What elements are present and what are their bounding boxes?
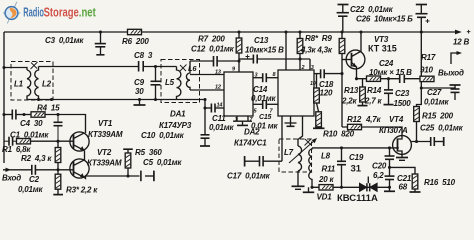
wire L6 to DA1 pin12: [190, 89, 224, 91]
wire emitter VT3 row: [357, 78, 422, 80]
resistor R10: [316, 112, 322, 127]
svg-text:C25 0,01мк: C25 0,01мк: [420, 124, 464, 133]
svg-text:C11: C11: [212, 114, 226, 123]
capacitor C20: [385, 148, 395, 176]
capacitor C3: [95, 32, 106, 55]
wire L2 top to C8: [39, 66, 139, 68]
node C12-R7: [237, 59, 240, 62]
node C19 bottom: [340, 186, 343, 189]
DA2 pin 11 stub to C17: [281, 116, 283, 161]
svg-text:L7: L7: [284, 148, 294, 157]
wire VT3 base bias vertical: [341, 60, 343, 128]
node C23: [387, 77, 390, 80]
resistor R17: [420, 76, 434, 81]
svg-text:L6: L6: [188, 64, 197, 73]
capacitor C23: [384, 79, 394, 105]
svg-text:31: 31: [351, 164, 362, 175]
resistor R14: [367, 76, 381, 81]
capacitor C9: [151, 67, 161, 100]
capacitor C17: [245, 156, 282, 167]
svg-text:R17: R17: [421, 53, 436, 62]
bottom varicap wire: [312, 186, 390, 188]
svg-text:C13: C13: [254, 36, 269, 45]
logo globe icon: [3, 2, 21, 24]
svg-text:.net: .net: [79, 6, 97, 20]
node C19 top: [340, 146, 343, 149]
svg-text:R14: R14: [367, 86, 382, 95]
svg-text:10мк × 15 В: 10мк × 15 В: [369, 68, 412, 77]
wire VT2 emitter: [85, 176, 140, 178]
node L2 bottom: [37, 98, 40, 101]
R16 ground: [410, 189, 421, 192]
resistor R8: [297, 39, 303, 54]
node box right: [50, 98, 53, 101]
capacitor C26: [416, 5, 430, 33]
inductor L5: [177, 67, 181, 100]
svg-text:Вход: Вход: [2, 174, 21, 183]
VT4 source ground: [396, 158, 408, 161]
svg-text:К174УС1: К174УС1: [234, 139, 267, 148]
svg-text:R4 15: R4 15: [37, 104, 60, 113]
node C6 top: [56, 113, 59, 116]
inductor L7: [298, 146, 302, 171]
core mark L7: [305, 139, 312, 146]
svg-text:R12: R12: [347, 115, 362, 124]
node C25 wire: [415, 140, 418, 143]
inductor L6: [186, 61, 190, 90]
node C18 wire: [340, 72, 343, 75]
node rail R8: [298, 30, 301, 33]
svg-text:Storage: Storage: [44, 6, 79, 20]
svg-text:4,7к: 4,7к: [365, 115, 382, 124]
resistor R1: [17, 139, 31, 144]
capacitor C13: [239, 55, 310, 64]
top supply rail wire: [4, 31, 456, 33]
wire R17 to R15: [417, 82, 422, 107]
resistor R7: [236, 38, 242, 53]
capacitor C25: [412, 137, 444, 146]
transistor VT3: [342, 32, 365, 79]
svg-text:DA2: DA2: [244, 128, 260, 137]
DA1 bottom pins: [233, 116, 252, 125]
tuning arrow L7L8: [289, 138, 317, 163]
node bus C10: [203, 98, 206, 101]
R9 stems: [341, 32, 343, 60]
capacitor C14 wire DA1-DA2: [253, 73, 278, 82]
svg-text:6,2: 6,2: [373, 171, 384, 180]
svg-text:910: 910: [420, 66, 433, 75]
capacitor C2: [32, 165, 74, 175]
inductor L8: [309, 148, 312, 187]
wire L6 to DA1 pin13: [190, 74, 224, 76]
capacitor C18: [314, 69, 342, 78]
svg-text:C8 3: C8 3: [134, 51, 153, 60]
output terminal: [451, 51, 462, 64]
svg-text:R6 200: R6 200: [122, 37, 149, 46]
svg-text:C19: C19: [349, 153, 364, 162]
op-amp U DA1 box: [224, 72, 253, 116]
svg-text:R11: R11: [322, 165, 336, 174]
svg-text:C4 30: C4 30: [20, 119, 43, 128]
svg-text:К174УР3: К174УР3: [159, 121, 192, 130]
svg-text:C23: C23: [395, 89, 410, 98]
svg-text:DA1: DA1: [170, 110, 186, 119]
resistor R11: [319, 185, 333, 190]
node L8 bottom: [310, 186, 313, 189]
svg-text:VT2: VT2: [97, 148, 112, 157]
transformer L1 L2 screen (dashed box): [11, 62, 53, 101]
svg-text:КТ 315: КТ 315: [368, 44, 397, 54]
resistor R13: [360, 87, 366, 102]
capacitor C1: [4, 137, 17, 146]
svg-text:C10 0,01мк: C10 0,01мк: [141, 131, 185, 140]
wire R2 stems: [57, 141, 59, 170]
capacitor C21: [384, 176, 395, 191]
ground symbol bus: [134, 100, 146, 106]
node rail C26: [420, 30, 423, 33]
node C20 top: [388, 146, 391, 149]
svg-text:VD1: VD1: [317, 193, 333, 202]
capacitor C27: [421, 85, 460, 100]
node rail VT3: [359, 30, 362, 33]
DA2 pin stub to L7: [298, 116, 303, 146]
svg-text:68: 68: [399, 183, 408, 192]
svg-text:R15 200: R15 200: [422, 112, 454, 121]
node border-C4: [2, 113, 5, 116]
transformer L5 L6 screen (dashed box): [161, 60, 200, 103]
svg-text:C2: C2: [29, 175, 40, 184]
resistor R3: [55, 174, 61, 189]
svg-text:L2: L2: [42, 80, 52, 89]
node R8 bottom: [298, 57, 301, 60]
resistor R2: [55, 148, 61, 163]
node base VT1: [56, 140, 59, 143]
capacitor C11: [205, 104, 224, 113]
wire C20 to R16: [390, 167, 416, 174]
wire R1 to VT1 base: [31, 140, 74, 142]
svg-text:12: 12: [215, 85, 221, 91]
svg-text:Выход: Выход: [438, 69, 464, 78]
transistor VT1: [70, 132, 89, 151]
svg-text:2,2к: 2,2к: [341, 97, 358, 106]
frame left border wire: [3, 32, 5, 163]
transistor VT2: [70, 159, 89, 178]
node R7 rail: [237, 30, 240, 33]
R7 stems: [238, 32, 240, 72]
capacitor C4: [4, 110, 31, 120]
transistor VT4: [393, 136, 412, 158]
svg-text:C22 0,01мк: C22 0,01мк: [350, 5, 394, 14]
inductor L2: [35, 67, 39, 100]
svg-text:0,01мк: 0,01мк: [209, 123, 234, 132]
resistor R4: [31, 112, 45, 117]
node base VT2: [56, 168, 59, 171]
wire R12 to VT4 drain: [342, 127, 402, 136]
svg-text:VT1: VT1: [98, 119, 113, 128]
svg-text:4,3к 4,3к: 4,3к 4,3к: [300, 46, 333, 55]
VT4 gate dot: [396, 147, 399, 150]
svg-text:R2 4,3 к: R2 4,3 к: [21, 154, 52, 163]
svg-text:L1: L1: [14, 80, 24, 89]
svg-text:C14: C14: [253, 85, 268, 94]
ground L8 bottom: [303, 187, 314, 192]
L7 ground: [292, 171, 305, 189]
svg-text:C9: C9: [134, 78, 145, 87]
transformer L7 L8 screen (dashed box): [279, 139, 312, 172]
R5 stems: [123, 149, 133, 176]
svg-text:20 к: 20 к: [318, 175, 335, 184]
node left-border / L1: [2, 66, 5, 69]
DA2 mid pin ground: [285, 116, 297, 126]
R15 stem to C25 wire: [416, 122, 418, 142]
R13 stems: [358, 79, 368, 106]
svg-text:120: 120: [320, 89, 333, 98]
svg-text:R13: R13: [344, 86, 359, 95]
svg-text:C5 0,01мк: C5 0,01мк: [143, 158, 182, 167]
svg-text:C24: C24: [379, 59, 394, 68]
svg-text:10: 10: [310, 81, 316, 87]
inductor L1: [27, 70, 31, 100]
svg-text:1500: 1500: [394, 99, 412, 108]
node C3-rail: [99, 30, 102, 33]
svg-text:R7 200: R7 200: [198, 35, 225, 44]
capacitor C19: [337, 148, 346, 187]
node C11: [203, 106, 206, 109]
svg-text:C17 0,01мк: C17 0,01мк: [227, 172, 271, 181]
R8 stems: [299, 32, 301, 59]
DA2 top pin stubs: [300, 59, 310, 70]
svg-text:КТ339АМ: КТ339АМ: [88, 130, 123, 139]
resistor R16: [412, 174, 418, 189]
svg-text:10мк×15 В: 10мк×15 В: [245, 46, 284, 55]
node emitter VT3: [355, 77, 358, 80]
input arrow: [3, 168, 32, 172]
resistor R6: [128, 29, 142, 34]
resistor R9: [339, 39, 345, 54]
varicap VD1: [360, 177, 378, 192]
node R5 bottom: [126, 174, 129, 177]
wire L8 to VT4 gate: [312, 147, 393, 149]
node C9 top: [154, 65, 157, 68]
svg-text:C15: C15: [259, 114, 272, 121]
svg-text:13: 13: [215, 70, 221, 76]
svg-text:3: 3: [255, 73, 258, 79]
capacitor C24: [400, 74, 405, 83]
svg-text:2,7 к: 2,7 к: [364, 97, 383, 106]
node C9 bottom: [154, 98, 157, 101]
svg-text:L8: L8: [321, 152, 331, 161]
svg-text:C27: C27: [427, 88, 442, 97]
svg-text:C20: C20: [372, 162, 387, 171]
svg-text:C12 0,01мк: C12 0,01мк: [191, 45, 235, 54]
resistor R12: [348, 124, 362, 129]
capacitor C12: [190, 56, 239, 67]
svg-text:0,01мк: 0,01мк: [424, 98, 449, 107]
wire border to L1: [4, 68, 27, 71]
svg-text:30: 30: [135, 87, 144, 96]
plus mark 12V: [467, 30, 471, 34]
ground bus wire: [27, 99, 205, 101]
svg-text:C3 0,01мк: C3 0,01мк: [45, 36, 84, 45]
wire rail down R17: [420, 32, 422, 76]
capacitor C6 vertical: [54, 115, 63, 142]
resistor chain top: [314, 88, 320, 103]
wire rail to DA2 pin: [285, 32, 287, 70]
svg-text:2: 2: [301, 65, 305, 71]
node C21 wire: [388, 186, 391, 189]
svg-text:12 В: 12 В: [453, 38, 470, 47]
svg-text:R8* R9: R8* R9: [305, 34, 332, 43]
capacitor C10: [200, 100, 210, 147]
svg-text:0,01мк: 0,01мк: [251, 94, 276, 103]
svg-text:КТ339АМ: КТ339АМ: [87, 159, 122, 168]
svg-text:1: 1: [235, 117, 238, 123]
svg-text:L5: L5: [165, 78, 175, 87]
svg-text:R1 6,8к: R1 6,8к: [2, 145, 31, 154]
svg-text:R3* 2,2 к: R3* 2,2 к: [66, 186, 98, 195]
svg-text:R5 360: R5 360: [135, 148, 162, 157]
capacitor C15 wire DA1-DA2: [253, 100, 278, 109]
svg-text:C26 10мк×15 Б: C26 10мк×15 Б: [356, 15, 413, 24]
resistor R5: [125, 153, 131, 168]
node bus mid: [138, 98, 141, 101]
svg-text:0,01мк: 0,01мк: [18, 185, 43, 194]
node C4-R4: [22, 113, 25, 116]
node rail DA2: [284, 30, 287, 33]
R3 ground: [53, 170, 63, 195]
op-amp U DA2 box: [278, 70, 314, 116]
wire R4 to VT1 collector: [45, 115, 86, 134]
resistor R15: [414, 107, 420, 122]
svg-text:R16 510: R16 510: [424, 178, 456, 187]
svg-text:R10 820: R10 820: [323, 130, 355, 139]
svg-text:Radio: Radio: [23, 6, 44, 20]
node C20-R16: [388, 166, 391, 169]
capacitor C8: [139, 61, 177, 72]
R10 stems: [313, 74, 325, 129]
core adjust mark L5L6: [180, 65, 187, 72]
rail arrowhead: [455, 30, 462, 35]
node rail C22: [340, 30, 343, 33]
wire VT1 emitter to VT2 collector: [84, 151, 86, 161]
core adjust mark: [31, 62, 38, 69]
svg-text:VT4: VT4: [389, 115, 404, 124]
svg-text:5: 5: [254, 109, 258, 115]
capacitor C5: [141, 171, 154, 182]
capacitor C22: [337, 5, 349, 33]
svg-text:КВС111А: КВС111А: [337, 193, 378, 204]
node C27 branch: [420, 86, 423, 89]
svg-text:3: 3: [311, 65, 314, 71]
